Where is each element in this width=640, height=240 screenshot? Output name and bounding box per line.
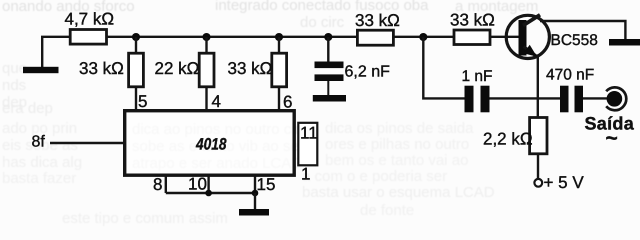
junction dot pin 15 bbox=[252, 190, 259, 197]
svg-text:470 nF: 470 nF bbox=[546, 67, 594, 84]
svg-text:33 kΩ: 33 kΩ bbox=[450, 11, 495, 30]
resistor R7 2,2 kOhm (vertical) bbox=[530, 118, 547, 154]
wire: R2 to IC pin 5 bbox=[135, 87, 137, 110]
svg-text:6: 6 bbox=[283, 93, 292, 112]
IC U1 right tab (pins 11/1) bbox=[298, 123, 317, 166]
svg-text:4: 4 bbox=[212, 92, 221, 111]
svg-text:33 kΩ: 33 kΩ bbox=[228, 59, 273, 78]
svg-text:8f: 8f bbox=[32, 134, 46, 151]
output jack J1 (Saida) inner dot bbox=[607, 91, 623, 107]
resistor R2 33 kOhm (vertical, pin 5) bbox=[129, 53, 144, 87]
wire: R4 to IC pin 6 bbox=[278, 87, 280, 110]
ground GND2 (below C1) bbox=[313, 95, 346, 102]
svg-text:1: 1 bbox=[301, 165, 310, 184]
wire: C3 to output jack bbox=[583, 97, 607, 99]
wire: R1 left lead down to ground bbox=[42, 37, 70, 67]
svg-text:22 kΩ: 22 kΩ bbox=[155, 59, 200, 78]
junction dot pin 10 bbox=[205, 190, 212, 197]
capacitor C1 6,2 nF (plates) bbox=[315, 62, 344, 82]
svg-text:33 kΩ: 33 kΩ bbox=[79, 59, 124, 78]
wire: IC pin 10 stub bbox=[207, 177, 209, 194]
IC U1 4018 body bbox=[125, 111, 295, 176]
wire: R7 to +5V terminal bbox=[537, 155, 539, 180]
wire: collector down to output node bbox=[537, 57, 539, 118]
resistor R4 33 kOhm (vertical, pin 6) bbox=[272, 53, 287, 87]
resistor R6 33 kOhm (horizontal) bbox=[454, 30, 490, 45]
svg-text:+ 5 V: + 5 V bbox=[544, 173, 585, 192]
svg-text:11: 11 bbox=[300, 124, 318, 143]
terminal +5V (open circle) bbox=[534, 179, 542, 187]
wire: node D down to C1 bbox=[327, 37, 329, 62]
svg-text:BC558: BC558 bbox=[551, 32, 598, 49]
wire: R3 to IC pin 4 bbox=[205, 87, 207, 110]
svg-text:6,2 nF: 6,2 nF bbox=[345, 64, 391, 81]
wire: node A down to R2 bbox=[135, 37, 137, 54]
svg-text:33 kΩ: 33 kΩ bbox=[355, 11, 400, 30]
wire: top rail from R6 to Q1 base bbox=[490, 36, 519, 38]
wire: pin 15 to ground bbox=[254, 193, 256, 209]
transistor Q1 collector lead with arrow bbox=[524, 47, 538, 58]
svg-text:4018: 4018 bbox=[195, 136, 227, 154]
svg-text:1 nF: 1 nF bbox=[462, 68, 493, 85]
resistor R3 22 kOhm (vertical, pin 4) bbox=[199, 53, 214, 87]
node E junction dot (C2 branch) bbox=[419, 33, 427, 41]
wire: top rail from R1 to R5 bbox=[107, 36, 359, 38]
svg-text:2,2 kΩ: 2,2 kΩ bbox=[483, 130, 533, 149]
node D junction dot (C1 top) bbox=[324, 33, 332, 41]
node A junction dot (R2 top) bbox=[132, 33, 140, 41]
wire: 8f input to IC left side bbox=[50, 142, 123, 144]
node C junction dot (R4 top) bbox=[275, 33, 283, 41]
svg-text:4,7 kΩ: 4,7 kΩ bbox=[65, 10, 115, 29]
capacitor C3 470 nF (plates) bbox=[560, 86, 583, 113]
transistor Q1 base bar bbox=[519, 20, 527, 56]
wire: top rail from R5 to R6 bbox=[394, 36, 455, 38]
transistor Q1 BC558 (PNP) body circle bbox=[506, 15, 549, 58]
ground GND3 (below IC) bbox=[239, 209, 269, 216]
wire: C2 to C3 (through collector node) bbox=[490, 97, 561, 99]
resistor R1 4,7 kOhm (horizontal) bbox=[70, 30, 106, 45]
svg-text:~: ~ bbox=[606, 127, 618, 150]
svg-text:10: 10 bbox=[188, 175, 207, 194]
node B junction dot (R3 top) bbox=[202, 33, 210, 41]
wire: IC pin 15 stub bbox=[254, 177, 256, 194]
transistor Q1 emitter lead (to top) bbox=[523, 15, 540, 26]
wire: IC pin 8 stub bbox=[165, 177, 167, 194]
wire: bottom bus pin8-pin15 bbox=[166, 192, 255, 194]
wire: node B down to R3 bbox=[205, 37, 207, 54]
wire: C1 to ground bbox=[327, 81, 329, 95]
supply rail bar (right edge) bbox=[609, 39, 640, 46]
svg-text:8: 8 bbox=[153, 175, 162, 194]
output jack J1 outer ring bbox=[606, 87, 626, 110]
transistor Q1 arrow head bbox=[524, 45, 538, 57]
wire: node C down to R4 bbox=[278, 37, 280, 54]
svg-text:15: 15 bbox=[257, 175, 276, 194]
ground GND1 (top left) bbox=[23, 67, 59, 73]
wire: emitter to +V rail (top right) bbox=[540, 21, 625, 40]
wire: node E down and across to C2 bbox=[423, 37, 464, 98]
capacitor C2 1 nF (plates) bbox=[465, 86, 490, 113]
resistor R5 33 kOhm (horizontal) bbox=[357, 30, 393, 45]
svg-text:5: 5 bbox=[138, 92, 147, 111]
